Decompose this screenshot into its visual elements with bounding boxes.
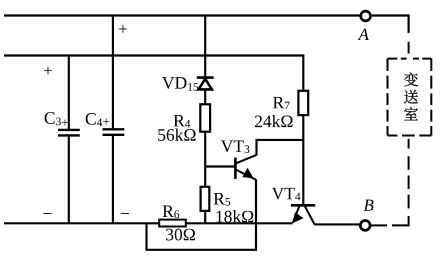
diode VD15	[197, 78, 214, 90]
label plus top	[119, 25, 127, 33]
terminal B	[360, 221, 370, 231]
wire top rail to diode VD15	[204, 16, 206, 78]
wire VT3 collector to R7 line	[257, 140, 304, 155]
capacitor C3	[58, 130, 80, 136]
label plus left	[44, 67, 52, 75]
label value 18k	[217, 210, 254, 222]
wire R7 bottom to VT4 base	[302, 115, 304, 204]
label VT4	[272, 188, 301, 200]
label R7	[273, 97, 290, 109]
wire second rail with corner drop to R7	[4, 56, 303, 91]
resistor R4	[200, 104, 210, 131]
dashed wire A corner to box top	[408, 42, 410, 54]
wire A terminal to right corner	[372, 16, 409, 33]
label char bian	[404, 73, 418, 87]
label value 30	[166, 229, 195, 241]
wire R5 to bottom rail	[204, 211, 206, 223]
label VD15	[162, 77, 198, 91]
wire VT3 base	[205, 165, 234, 167]
wire C3 branch upper	[68, 56, 70, 130]
label R5	[214, 193, 230, 206]
wire top rail	[4, 14, 360, 16]
wire R4 to R5	[204, 132, 206, 187]
terminal A	[361, 11, 371, 21]
label C3 plus	[45, 112, 68, 126]
label value 56k	[158, 129, 195, 141]
label R4	[174, 115, 191, 127]
dashed wire box bottom to B terminal	[371, 139, 408, 226]
label minus right	[121, 212, 129, 215]
label A	[358, 29, 369, 40]
wire C4 branch upper	[112, 16, 114, 129]
label char shi	[404, 107, 418, 120]
wire VT4 collector to B terminal	[315, 223, 360, 225]
wire lower sub-rail	[147, 223, 258, 250]
label VT3	[221, 140, 249, 153]
transistor VT3	[235, 155, 256, 180]
resistor R7	[298, 91, 308, 115]
wire C4 branch lower	[112, 135, 114, 223]
label C4 plus	[86, 113, 109, 126]
resistor R6	[159, 220, 186, 227]
resistor R5	[201, 187, 210, 211]
transistor VT4	[291, 205, 315, 224]
label R6	[163, 206, 180, 219]
label value 24k	[255, 115, 293, 127]
dashed box transmitter room	[388, 59, 432, 136]
wire C3 branch lower	[68, 136, 70, 224]
label B	[364, 200, 374, 211]
capacitor C4	[103, 129, 125, 135]
label char song	[404, 90, 418, 104]
wire bottom rail	[4, 222, 293, 224]
wire VT3 emitter down	[255, 179, 257, 249]
wire diode to R4	[204, 90, 206, 105]
label minus left	[43, 212, 51, 215]
